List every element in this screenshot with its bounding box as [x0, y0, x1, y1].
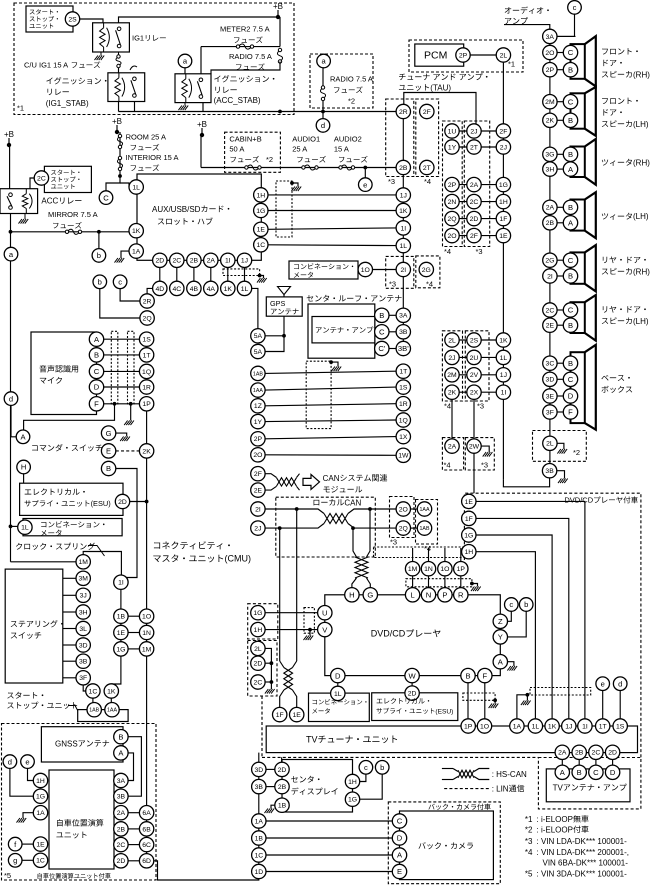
svg-text:3M: 3M	[78, 576, 88, 583]
svg-text:1P: 1P	[464, 723, 473, 730]
svg-text:1K: 1K	[548, 723, 557, 730]
svg-text:1I: 1I	[582, 723, 588, 730]
svg-text:2B: 2B	[190, 258, 199, 265]
svg-text:C': C'	[378, 344, 385, 353]
svg-text:1O: 1O	[142, 614, 151, 621]
svg-text:1L: 1L	[21, 525, 29, 532]
svg-text:1AB: 1AB	[419, 526, 429, 532]
svg-text:2O: 2O	[545, 50, 554, 57]
svg-text:1G: 1G	[253, 610, 262, 617]
svg-text:b: b	[380, 763, 384, 772]
svg-text:TV: TV	[306, 735, 318, 745]
svg-text:2D: 2D	[470, 216, 479, 223]
svg-text:1G: 1G	[36, 794, 45, 801]
svg-text:e: e	[601, 679, 605, 688]
svg-text:1AA: 1AA	[107, 708, 117, 714]
svg-text:D: D	[610, 768, 616, 777]
svg-text:2O: 2O	[399, 506, 408, 513]
svg-text:2S: 2S	[470, 337, 479, 344]
svg-text:TV: TV	[553, 783, 564, 792]
svg-text:50 A: 50 A	[229, 145, 244, 154]
svg-text:1U: 1U	[448, 128, 457, 135]
svg-text:1E: 1E	[293, 712, 302, 719]
svg-text:B: B	[106, 464, 111, 473]
svg-text:1R: 1R	[399, 401, 408, 408]
svg-text:(ESU): (ESU)	[435, 708, 453, 715]
svg-text:2Q: 2Q	[447, 216, 456, 223]
svg-text:VIN 6BA-DK*** 100001-: VIN 6BA-DK*** 100001-	[543, 859, 629, 868]
svg-text:1F: 1F	[499, 216, 507, 223]
svg-text:25 A: 25 A	[292, 145, 307, 154]
svg-text:2J: 2J	[254, 526, 261, 533]
svg-text:AUDIO1: AUDIO1	[292, 135, 320, 144]
svg-text:*1: *1	[508, 60, 515, 69]
svg-text:DVD/CD: DVD/CD	[564, 496, 593, 505]
svg-text:: LIN: : LIN	[492, 784, 509, 793]
svg-text:1AB: 1AB	[253, 371, 263, 377]
svg-text:H: H	[21, 463, 26, 472]
svg-text:: i-ELOOP: : i-ELOOP	[537, 825, 573, 834]
svg-text:1I: 1I	[225, 258, 231, 265]
svg-text:2D: 2D	[608, 750, 617, 757]
svg-text:1E: 1E	[499, 233, 508, 240]
svg-text:1B: 1B	[117, 614, 126, 621]
svg-text:1B: 1B	[278, 803, 287, 810]
svg-text:g: g	[13, 856, 17, 865]
svg-text:c: c	[509, 600, 513, 609]
svg-text:*4: *4	[444, 461, 451, 470]
svg-text:*4: *4	[444, 247, 451, 256]
svg-text:GPS: GPS	[270, 299, 286, 308]
svg-text:3H: 3H	[546, 167, 555, 174]
svg-text:3C: 3C	[546, 361, 555, 368]
svg-text:P: P	[442, 591, 447, 600]
svg-text:d: d	[618, 679, 622, 688]
svg-text:B: B	[568, 116, 573, 125]
svg-text:C: C	[568, 306, 574, 315]
svg-text:2X: 2X	[470, 390, 479, 397]
svg-text:1Q: 1Q	[142, 369, 151, 376]
svg-text:C: C	[593, 768, 599, 777]
svg-text:B: B	[118, 732, 123, 741]
svg-text:2T: 2T	[470, 144, 478, 151]
svg-text:*4: *4	[424, 177, 431, 186]
svg-text:4D: 4D	[155, 286, 164, 293]
svg-text:2L: 2L	[448, 337, 456, 344]
svg-text:2C: 2C	[592, 750, 601, 757]
svg-text:*2: *2	[525, 825, 533, 834]
svg-text:2B: 2B	[575, 750, 584, 757]
svg-text:2A: 2A	[207, 258, 216, 265]
svg-text:D: D	[335, 671, 341, 680]
svg-text:b: b	[98, 278, 102, 287]
svg-text:B: B	[568, 203, 573, 212]
svg-text:1AA: 1AA	[419, 507, 429, 513]
svg-text:2M: 2M	[447, 372, 457, 379]
svg-text:2K: 2K	[448, 390, 457, 397]
svg-text:G: G	[367, 591, 373, 600]
svg-text:*4: *4	[444, 402, 451, 411]
svg-text:2G: 2G	[545, 258, 554, 265]
svg-text:1C: 1C	[36, 858, 45, 865]
svg-text:2K: 2K	[546, 118, 555, 125]
svg-text:E: E	[397, 867, 402, 876]
svg-text:C: C	[397, 817, 403, 826]
svg-text:2S: 2S	[68, 16, 77, 23]
svg-text:1J: 1J	[565, 723, 572, 730]
svg-text:B: B	[94, 351, 99, 360]
svg-text:1T: 1T	[143, 352, 151, 359]
svg-text:5A: 5A	[254, 333, 263, 340]
svg-text:3B: 3B	[117, 794, 126, 801]
svg-text:2L: 2L	[500, 52, 508, 59]
svg-text:1F: 1F	[276, 712, 284, 719]
svg-text:(IG1_STAB): (IG1_STAB)	[46, 99, 89, 108]
svg-text:(LH): (LH)	[633, 317, 649, 326]
svg-text:W: W	[409, 671, 417, 680]
svg-text:1E: 1E	[465, 499, 474, 506]
svg-text:C: C	[103, 193, 109, 202]
svg-text:3G: 3G	[545, 152, 554, 159]
svg-text:1L: 1L	[334, 691, 342, 698]
svg-text:(RH): (RH)	[633, 267, 650, 276]
svg-text:1G: 1G	[116, 646, 125, 653]
svg-text:RADIO 7.5 A: RADIO 7.5 A	[229, 52, 272, 61]
svg-text:2I: 2I	[255, 506, 261, 513]
svg-text:CABIN+B: CABIN+B	[229, 135, 261, 144]
svg-text:2C: 2C	[117, 842, 126, 849]
svg-text:*3: *3	[525, 837, 533, 846]
svg-text:2L: 2L	[546, 441, 554, 448]
svg-text:ACC: ACC	[41, 197, 58, 206]
svg-text:1K: 1K	[107, 688, 116, 695]
svg-text:N: N	[426, 591, 431, 600]
svg-text:1A: 1A	[513, 723, 522, 730]
svg-text:c: c	[573, 3, 577, 12]
svg-text:1H: 1H	[36, 778, 45, 785]
svg-text:C: C	[568, 375, 574, 384]
svg-text:2Q: 2Q	[399, 526, 408, 533]
svg-text:2L: 2L	[254, 646, 262, 653]
svg-text:1K: 1K	[499, 337, 508, 344]
svg-text:2F: 2F	[423, 109, 431, 116]
svg-text:1K: 1K	[132, 228, 141, 235]
svg-text:2F: 2F	[470, 233, 478, 240]
svg-text:1M: 1M	[78, 559, 88, 566]
svg-text:3F: 3F	[79, 675, 87, 682]
svg-text:2P: 2P	[546, 67, 555, 74]
svg-text:*5: *5	[4, 871, 11, 880]
svg-text:1Z: 1Z	[254, 403, 262, 410]
svg-text:U: U	[322, 608, 327, 617]
svg-text:1G: 1G	[256, 208, 265, 215]
svg-text:2P: 2P	[459, 52, 468, 59]
svg-text:1A: 1A	[36, 810, 45, 817]
svg-text:2J: 2J	[448, 355, 455, 362]
svg-text:3L: 3L	[79, 626, 87, 633]
svg-text:2W: 2W	[469, 444, 480, 451]
svg-text:1H: 1H	[499, 199, 508, 206]
svg-text:1AA: 1AA	[253, 388, 263, 394]
svg-text:2D: 2D	[117, 858, 126, 865]
svg-text:4B: 4B	[190, 286, 199, 293]
svg-text:AUDIO2: AUDIO2	[334, 135, 362, 144]
svg-text:B: B	[568, 65, 573, 74]
svg-text:2I: 2I	[547, 273, 553, 280]
svg-text:Z: Z	[498, 617, 503, 626]
svg-text:*2: *2	[266, 155, 273, 164]
svg-text:1L: 1L	[400, 243, 408, 250]
svg-text:*5: *5	[525, 869, 533, 878]
svg-text:F: F	[94, 400, 99, 409]
svg-text:1S: 1S	[616, 723, 625, 730]
svg-text:2A: 2A	[448, 444, 457, 451]
svg-text:Y: Y	[498, 633, 503, 642]
svg-text:1O: 1O	[440, 566, 449, 573]
svg-text:+B: +B	[4, 130, 14, 139]
svg-text:2C: 2C	[470, 199, 479, 206]
svg-text:1M: 1M	[142, 646, 152, 653]
svg-text:1B: 1B	[255, 835, 264, 842]
svg-text:3B: 3B	[79, 659, 88, 666]
svg-text:4A: 4A	[207, 286, 216, 293]
svg-text:3B': 3B'	[398, 344, 409, 353]
svg-text:1K: 1K	[399, 208, 408, 215]
svg-text:CAN: CAN	[344, 498, 361, 507]
svg-text:2C: 2C	[546, 307, 555, 314]
svg-text:H: H	[349, 591, 354, 600]
svg-text:(CMU): (CMU)	[225, 554, 252, 564]
svg-text:2R: 2R	[399, 109, 408, 116]
svg-text:1M: 1M	[408, 566, 418, 573]
svg-text:3J: 3J	[80, 593, 87, 600]
svg-text:2B: 2B	[117, 826, 126, 833]
svg-text:2O: 2O	[253, 452, 262, 459]
svg-text:(LH): (LH)	[633, 120, 649, 129]
svg-text:c: c	[364, 763, 368, 772]
svg-text:1T: 1T	[399, 369, 407, 376]
svg-text:2V: 2V	[470, 372, 479, 379]
svg-text:1AB: 1AB	[89, 708, 99, 714]
svg-text:1J: 1J	[500, 372, 507, 379]
svg-text:ROOM 25 A: ROOM 25 A	[126, 133, 166, 142]
svg-text:E: E	[106, 447, 111, 456]
svg-text:1S: 1S	[142, 337, 151, 344]
svg-text:2B: 2B	[546, 220, 555, 227]
svg-text:3A: 3A	[117, 778, 126, 785]
svg-text:2A: 2A	[470, 182, 479, 189]
svg-text:1G: 1G	[348, 797, 357, 804]
svg-text:(TAU): (TAU)	[430, 83, 451, 92]
svg-text:+B: +B	[197, 120, 207, 129]
svg-text:*3: *3	[476, 247, 483, 256]
svg-text:3A: 3A	[546, 34, 555, 41]
svg-text:3D: 3D	[254, 767, 263, 774]
svg-text:1P: 1P	[457, 566, 466, 573]
svg-text:INTERIOR 15 A: INTERIOR 15 A	[126, 153, 179, 162]
svg-text:2B: 2B	[399, 165, 408, 172]
svg-text:1H: 1H	[348, 779, 357, 786]
svg-text:1Q: 1Q	[399, 417, 408, 424]
svg-text:1A: 1A	[132, 249, 141, 256]
svg-text:2K: 2K	[142, 448, 151, 455]
svg-text:1F: 1F	[465, 516, 473, 523]
svg-text:B: B	[577, 768, 582, 777]
svg-text:2J: 2J	[470, 128, 477, 135]
svg-text:: VIN 3DA-DK*** 100001-: : VIN 3DA-DK*** 100001-	[537, 869, 628, 878]
svg-text:R: R	[458, 591, 464, 600]
svg-text:2D: 2D	[155, 258, 164, 265]
svg-text:2P: 2P	[448, 182, 457, 189]
svg-text:1O: 1O	[361, 267, 370, 274]
svg-text:2B: 2B	[278, 784, 287, 791]
svg-text:B: B	[568, 150, 573, 159]
svg-text:: VIN LDA-DK*** 200001-,: : VIN LDA-DK*** 200001-,	[537, 848, 630, 857]
svg-text:1C: 1C	[256, 242, 265, 249]
svg-text:2N: 2N	[448, 199, 457, 206]
svg-text:2D: 2D	[254, 661, 263, 668]
svg-text:3F: 3F	[546, 409, 554, 416]
svg-text:2O: 2O	[447, 233, 456, 240]
svg-text:1H: 1H	[256, 192, 265, 199]
svg-text:B: B	[379, 311, 384, 320]
svg-text:*1: *1	[525, 815, 533, 824]
svg-text:1E: 1E	[257, 227, 266, 234]
svg-text:*1: *1	[17, 104, 24, 113]
svg-text:1J: 1J	[400, 192, 407, 199]
svg-text:d: d	[8, 757, 12, 766]
svg-text:1G: 1G	[464, 532, 473, 539]
svg-text:CAN: CAN	[323, 474, 340, 483]
svg-text:1D: 1D	[254, 869, 263, 876]
svg-text:F: F	[482, 671, 487, 680]
svg-text:2U: 2U	[470, 355, 479, 362]
svg-text:C: C	[379, 328, 385, 337]
svg-text:(ESU): (ESU)	[91, 499, 111, 508]
svg-text:2A: 2A	[117, 810, 126, 817]
svg-text:2J: 2J	[500, 144, 507, 151]
svg-text:PCM: PCM	[424, 50, 447, 62]
svg-text:2I: 2I	[400, 267, 406, 274]
svg-text:D: D	[568, 392, 574, 401]
svg-text:2D: 2D	[278, 767, 287, 774]
svg-text:3A: 3A	[399, 313, 408, 320]
svg-text:: VIN LDA-DK*** 100001-: : VIN LDA-DK*** 100001-	[537, 837, 628, 846]
svg-text:3H: 3H	[79, 609, 88, 616]
svg-text:2R: 2R	[143, 298, 152, 305]
svg-text:(RH): (RH)	[633, 70, 650, 79]
svg-text:2D: 2D	[408, 691, 417, 698]
svg-text:2F: 2F	[254, 471, 262, 478]
svg-text:B: B	[568, 321, 573, 330]
svg-text:+B: +B	[273, 2, 283, 11]
svg-text:1N: 1N	[424, 566, 433, 573]
svg-text:1I: 1I	[118, 580, 124, 587]
svg-text:2C: 2C	[37, 175, 46, 182]
svg-text:b: b	[524, 600, 528, 609]
svg-text:1C: 1C	[89, 688, 98, 695]
svg-text:2P: 2P	[254, 436, 263, 443]
svg-text:IG1: IG1	[132, 34, 144, 43]
svg-text:*4: *4	[525, 848, 533, 857]
svg-text:c: c	[118, 278, 122, 287]
svg-text:(RH): (RH)	[633, 158, 650, 167]
svg-text:C: C	[568, 256, 574, 265]
svg-text:e: e	[25, 757, 29, 766]
svg-text:DVD/CD: DVD/CD	[371, 629, 406, 639]
svg-text:1Y: 1Y	[448, 144, 457, 151]
svg-text:2E: 2E	[546, 323, 555, 330]
svg-text:d: d	[321, 121, 325, 130]
svg-text:(LH): (LH)	[633, 212, 649, 221]
svg-text:1H: 1H	[464, 549, 473, 556]
svg-text:2Q: 2Q	[143, 315, 152, 322]
svg-text:2T: 2T	[423, 165, 431, 172]
svg-text:*3: *3	[477, 402, 484, 411]
svg-text:1E: 1E	[117, 630, 126, 637]
svg-text:1W: 1W	[398, 453, 409, 460]
svg-text:G: G	[106, 429, 112, 438]
svg-text:L: L	[410, 591, 414, 600]
svg-text:: HS-CAN: : HS-CAN	[492, 770, 527, 779]
svg-text:2E: 2E	[254, 488, 263, 495]
svg-text:1P: 1P	[142, 401, 151, 408]
svg-text:RADIO 7.5 A: RADIO 7.5 A	[330, 75, 373, 84]
svg-text:*4: *4	[424, 544, 431, 553]
svg-text:1H: 1H	[254, 627, 263, 634]
svg-text:B: B	[568, 359, 573, 368]
svg-text:3B: 3B	[545, 468, 554, 475]
svg-text:METER2 7.5 A: METER2 7.5 A	[220, 25, 270, 34]
svg-text:2F: 2F	[499, 128, 507, 135]
svg-text:1A: 1A	[255, 818, 264, 825]
svg-text:1G: 1G	[499, 182, 508, 189]
svg-text:(ACC_STAB): (ACC_STAB)	[214, 96, 261, 105]
svg-text:: i-ELOOP: : i-ELOOP	[537, 815, 573, 824]
svg-text:2G: 2G	[422, 267, 431, 274]
svg-text:2D: 2D	[118, 499, 127, 506]
svg-text:6D: 6D	[142, 858, 151, 865]
svg-text:1I: 1I	[400, 225, 406, 232]
svg-text:5A: 5A	[254, 349, 263, 356]
svg-text:2A: 2A	[558, 750, 567, 757]
svg-text:GNSS: GNSS	[55, 739, 78, 748]
svg-text:*3: *3	[389, 280, 396, 289]
svg-text:*2: *2	[348, 97, 355, 106]
svg-text:B: B	[465, 671, 470, 680]
svg-text:3D: 3D	[546, 377, 555, 384]
svg-text:*3: *3	[390, 538, 397, 547]
svg-text:15 A: 15 A	[334, 145, 349, 154]
svg-text:C: C	[568, 48, 574, 57]
svg-text:1Y: 1Y	[254, 419, 263, 426]
svg-text:1J: 1J	[241, 258, 248, 265]
svg-text:1C: 1C	[254, 852, 263, 859]
svg-text:*3: *3	[388, 177, 395, 186]
svg-text:2C: 2C	[172, 258, 181, 265]
svg-text:MIRROR 7.5 A: MIRROR 7.5 A	[48, 210, 98, 219]
svg-text:AUX/USB/SD: AUX/USB/SD	[152, 205, 201, 214]
svg-text:2A: 2A	[546, 205, 555, 212]
svg-text:6B: 6B	[142, 826, 151, 833]
svg-text:F: F	[568, 408, 573, 417]
svg-text:1N: 1N	[142, 630, 151, 637]
svg-text:C/U IG1 15 A: C/U IG1 15 A	[24, 61, 68, 70]
svg-text:3D: 3D	[79, 642, 88, 649]
svg-text:1E: 1E	[36, 842, 45, 849]
svg-text:B: B	[568, 272, 573, 281]
svg-text:3B: 3B	[399, 329, 408, 336]
